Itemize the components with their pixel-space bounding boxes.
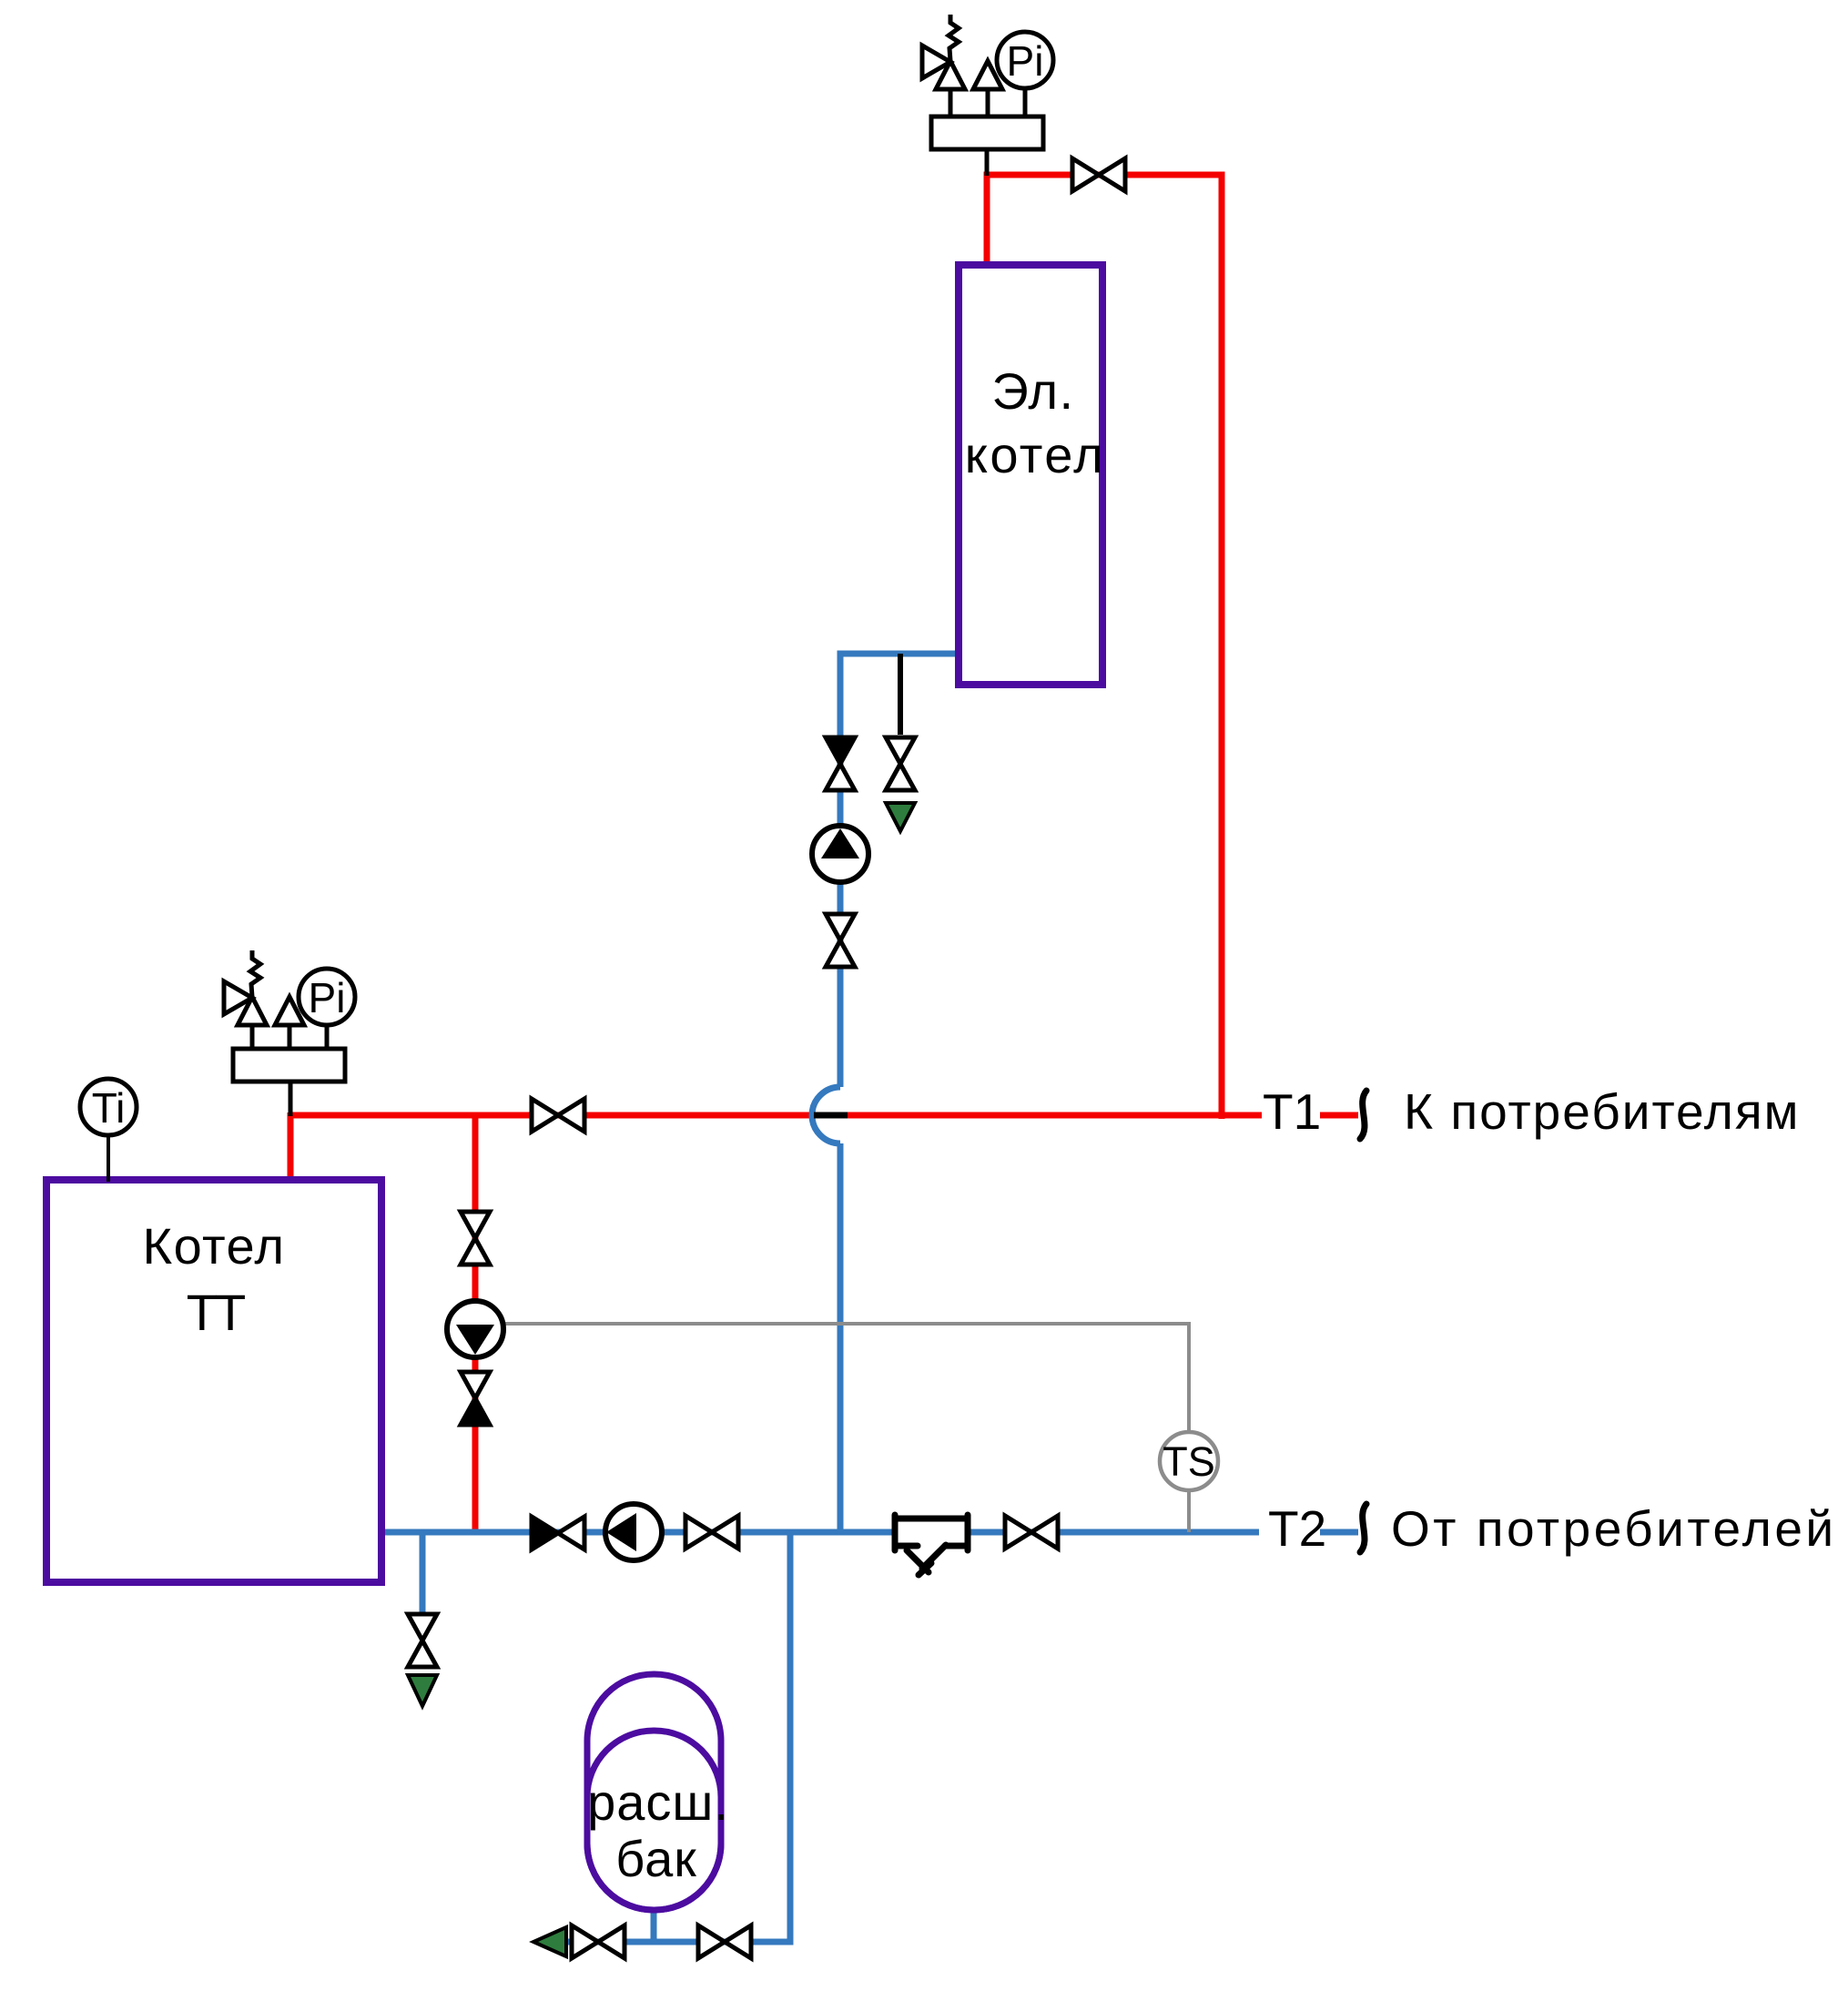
valve on El boiler top red line: [1072, 158, 1125, 191]
wire: blue T2 dash after label: [1320, 1529, 1358, 1536]
valve on red branch (vertical): [461, 1212, 490, 1265]
break mark T2: [1360, 1504, 1366, 1552]
svg-text:бак: бак: [615, 1830, 696, 1887]
svg-text:ТТ: ТТ: [187, 1284, 245, 1341]
manifold: [233, 1049, 345, 1082]
wire: tank stem: [651, 1910, 657, 1942]
wire: black drain stem from blue pipe near El boiler: [290, 149, 987, 1116]
svg-text:расш.: расш.: [587, 1773, 729, 1831]
wire: expansion tank riser and bottom run: [564, 1532, 790, 1942]
hop arc over T1: [812, 1087, 840, 1143]
drain green triangle under Kotel TT: [408, 1675, 437, 1706]
drain green triangle near El boiler: [886, 803, 915, 831]
air vent triangle: [275, 997, 304, 1025]
temperature switch TS: [1160, 1432, 1218, 1490]
wire: blue drain branch under Kotel TT: [420, 1532, 426, 1614]
svg-text:котел: котел: [965, 426, 1106, 483]
drain green triangle left of tank line (points left): [533, 1927, 566, 1956]
wire: gray control line pump to TS: [503, 1324, 1189, 1532]
pump on blue riser (flow up): [812, 826, 868, 882]
drain valve near El boiler (vertical): [886, 737, 915, 790]
wire: red branch from T1 down to T2 (TT boiler circuit): [472, 1115, 479, 1532]
valve right of expansion tank: [698, 1925, 751, 1958]
check valve on blue riser (top filled): [826, 737, 855, 790]
safety group on El boiler (manifold, safety valve, air vent, gauge Pi): [922, 15, 1053, 149]
gauge Pi: [299, 969, 355, 1025]
break mark T1: [1360, 1091, 1366, 1139]
valve on T2 after pump: [685, 1516, 738, 1549]
expansion tank: [587, 1674, 721, 1910]
pump on red branch (flow down): [447, 1301, 503, 1357]
strainer on T2 line: [897, 1520, 966, 1544]
thermometer Ti on Kotel TT: [80, 1079, 137, 1182]
valve on blue riser below pump (vertical): [826, 914, 855, 967]
svg-text:Ti: Ti: [92, 1084, 126, 1132]
wire: red T1 main line: [290, 1112, 1262, 1119]
svg-text:Т1: Т1: [1263, 1083, 1321, 1140]
boiler Kotel TT: [46, 1180, 381, 1582]
stems: [252, 1023, 327, 1049]
svg-text:Pi: Pi: [309, 974, 346, 1021]
wire: blue T2 main line: [381, 1529, 1259, 1536]
wire: red T1 dash after label: [1320, 1112, 1358, 1119]
safety valve: [238, 997, 267, 1025]
wire: red drop into Kotel TT: [288, 1112, 294, 1182]
svg-text:От потребителей: От потребителей: [1391, 1500, 1837, 1557]
wire: central riser below hop: [838, 1143, 844, 1532]
boiler El kotel: [959, 265, 1102, 685]
svg-text:К потребителям: К потребителям: [1404, 1083, 1800, 1140]
safety group on Kotel TT (manifold, safety valve, air vent, gauge Pi): [224, 950, 355, 1082]
valve on T2 after strainer: [1005, 1516, 1058, 1549]
valve (half black) on T2 line: [532, 1517, 584, 1549]
svg-text:TS: TS: [1163, 1438, 1215, 1485]
wire: manifold stem left group: [289, 1082, 293, 1116]
drain valve under Kotel TT (vertical): [408, 1614, 437, 1667]
svg-text:Котел: Котел: [142, 1217, 285, 1275]
wire: red supply from El boiler top to valve corner: [290, 175, 1358, 1532]
check valve on red branch (bottom filled): [461, 1372, 490, 1425]
svg-text:Эл.: Эл.: [991, 362, 1074, 420]
pump on T2 line (flow left): [605, 1504, 662, 1560]
wire: black hop segment on T1: [814, 1112, 848, 1119]
svg-text:Т2: Т2: [1268, 1500, 1326, 1557]
wire: manifold stem top group: [985, 149, 990, 176]
valve on T1 line: [532, 1099, 584, 1132]
wire: blue pipe from El boiler bottom to central riser: [381, 654, 1358, 1942]
valve left of expansion tank: [572, 1925, 624, 1958]
svg-text:Pi: Pi: [1007, 37, 1044, 85]
